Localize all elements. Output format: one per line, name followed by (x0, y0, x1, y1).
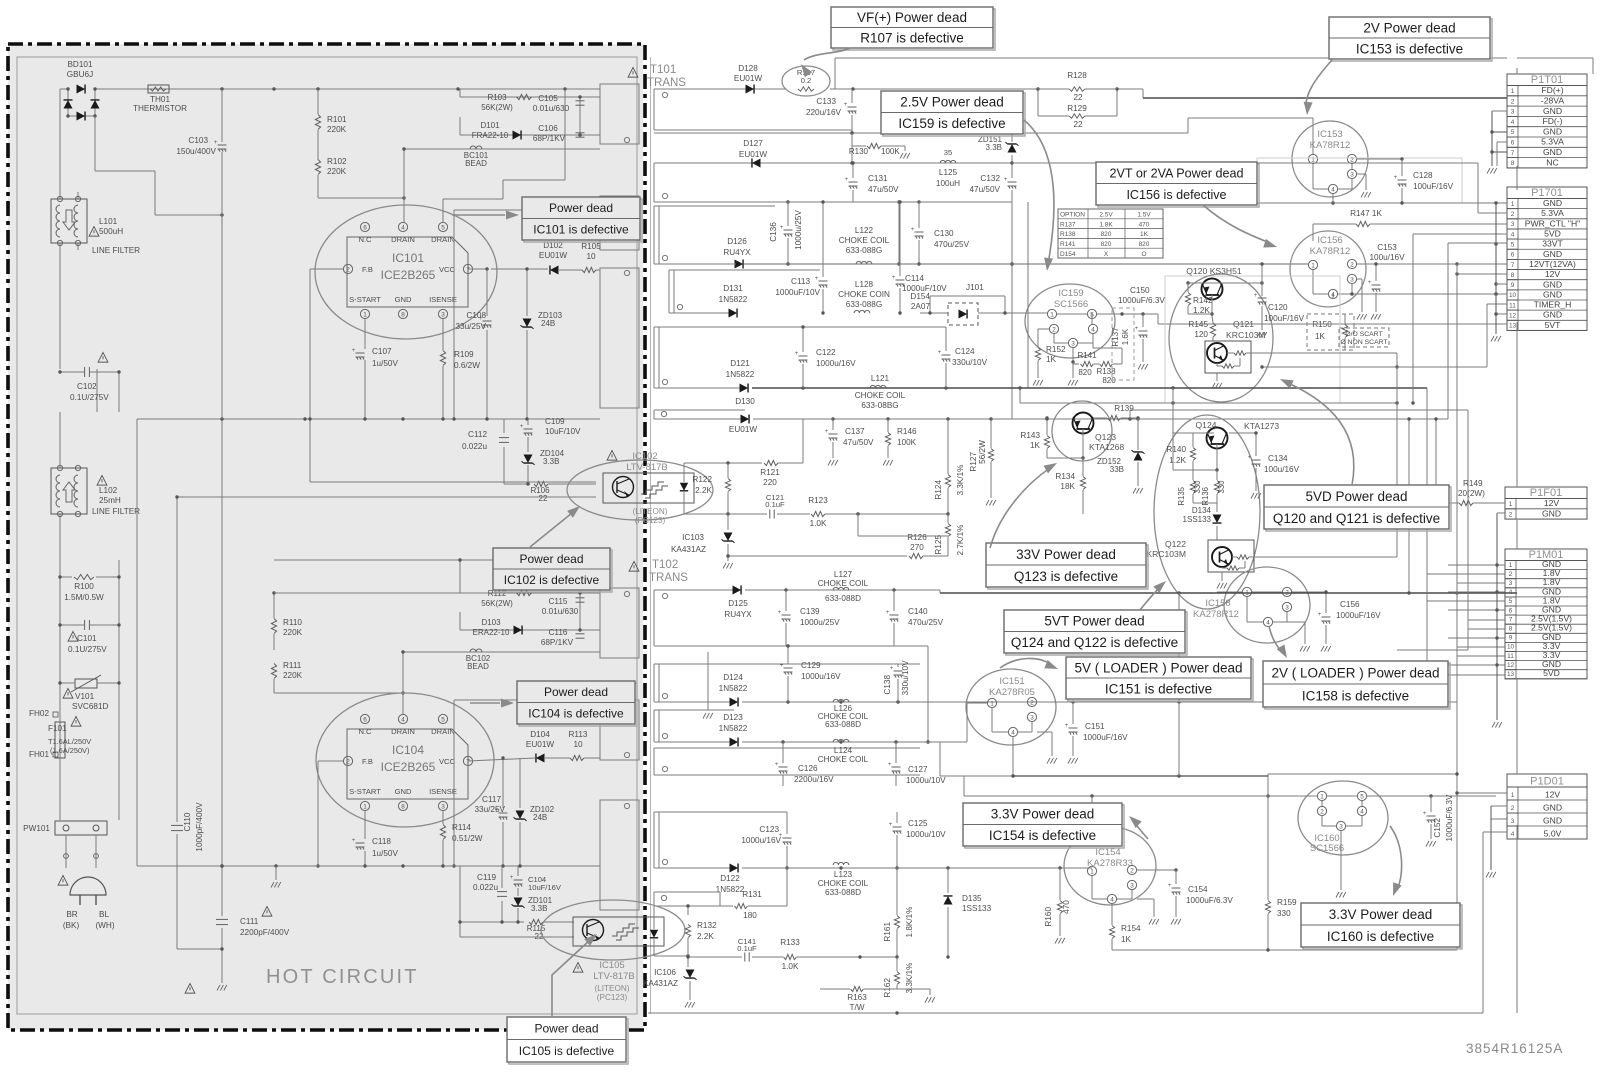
svg-text:1000u/10V: 1000u/10V (906, 776, 946, 785)
T102 feedback winding (654, 891, 688, 893)
wire bridge negative loop (94, 116, 96, 171)
svg-text:330u/10V: 330u/10V (952, 358, 988, 367)
resistor R121 (728, 462, 762, 464)
svg-text:THERMISTOR: THERMISTOR (133, 104, 187, 113)
capacitor C150 (1142, 314, 1144, 327)
wire IC151 pin4 down (1012, 737, 1014, 776)
svg-text:CHOKE COIL: CHOKE COIL (818, 879, 869, 888)
svg-text:Q123 is defective: Q123 is defective (1014, 569, 1118, 584)
capacitor C118 (364, 811, 366, 839)
svg-text:0.1uF: 0.1uF (737, 944, 757, 953)
svg-text:1: 1 (1311, 156, 1315, 163)
line filter L101 (51, 199, 87, 243)
svg-text:V101: V101 (75, 692, 95, 701)
svg-text:O: O (1141, 251, 1146, 258)
wire IC102 left leads (310, 481, 596, 483)
svg-text:+: + (795, 351, 799, 357)
resistor R101 (315, 115, 320, 130)
svg-text:R160: R160 (1044, 907, 1053, 927)
capacitor C130 (918, 202, 920, 228)
ground IC103 (727, 556, 729, 561)
regulator IC159 (1025, 284, 1115, 358)
svg-text:3.3B: 3.3B (986, 143, 1002, 152)
svg-text:2.5V: 2.5V (1099, 212, 1113, 219)
wire bus x1468 (1467, 410, 1469, 650)
callout 3.3V power dead IC154 (965, 805, 1124, 848)
wire IC104 drain (403, 651, 470, 653)
svg-text:R139: R139 (1114, 404, 1134, 413)
svg-text:KA431AZ: KA431AZ (643, 979, 678, 988)
resistor R125 (947, 514, 949, 523)
svg-text:633-088D: 633-088D (825, 720, 861, 729)
svg-text:2: 2 (1511, 211, 1515, 218)
svg-text:BL: BL (99, 910, 109, 919)
svg-text:4: 4 (1110, 896, 1114, 903)
svg-text:D123: D123 (723, 713, 743, 722)
callout 5V loader power dead (1068, 659, 1253, 701)
diode D104 (468, 758, 535, 761)
wire gnd bus P1701 (1495, 203, 1497, 334)
svg-text:+: + (890, 666, 894, 672)
svg-text:L101: L101 (99, 217, 118, 226)
svg-text:PWR_CTL "H": PWR_CTL "H" (1525, 218, 1580, 228)
svg-text:ERA22-10: ERA22-10 (473, 628, 510, 637)
svg-text:+: + (1248, 455, 1252, 461)
resistor R124 (947, 419, 949, 474)
svg-text:R100: R100 (74, 582, 94, 591)
capacitor C139 (785, 590, 787, 611)
svg-text:1000uF/16V: 1000uF/16V (1083, 733, 1128, 742)
resistor R154 (1111, 904, 1113, 925)
svg-text:5: 5 (1511, 241, 1515, 248)
diode D130 (741, 415, 750, 424)
svg-text:C102: C102 (77, 382, 97, 391)
svg-text:1000uF/6.3V: 1000uF/6.3V (1118, 296, 1165, 305)
svg-text:D124: D124 (723, 673, 743, 682)
resistor R114 (442, 811, 444, 824)
svg-text:(PC123): (PC123) (635, 516, 666, 525)
svg-text:2: 2 (1320, 808, 1324, 815)
svg-text:TRANS: TRANS (649, 572, 688, 584)
svg-text:2.7K/1%: 2.7K/1% (956, 525, 965, 556)
transistor Q123 (1073, 413, 1094, 434)
svg-text:FH02: FH02 (29, 709, 49, 718)
svg-text:6: 6 (1511, 252, 1515, 259)
svg-text:S-START: S-START (349, 787, 381, 796)
wire IC160 rail (1268, 795, 1317, 797)
svg-text:C111: C111 (240, 917, 259, 926)
svg-text:633-08BG: 633-08BG (861, 401, 898, 410)
svg-text:C134: C134 (1268, 454, 1288, 463)
svg-text:500uH: 500uH (99, 227, 123, 236)
wire IC159 pin3 gnd (1072, 348, 1074, 362)
highlight ellipse Q120 Q121 (1169, 274, 1273, 402)
svg-text:IC158: IC158 (1205, 598, 1230, 609)
diode D123 (730, 738, 739, 747)
svg-text:PW101: PW101 (23, 824, 50, 833)
svg-text:C126: C126 (798, 764, 818, 773)
svg-text:+: + (352, 348, 356, 354)
wire 12V from loop (1457, 273, 1507, 275)
wire drain5 path (442, 199, 444, 222)
svg-text:D101: D101 (480, 121, 500, 130)
transistor Q124 (1207, 428, 1228, 449)
zener ZD152 (1137, 418, 1139, 450)
T101 secondary winding S1 (654, 88, 785, 90)
svg-text:+: + (892, 275, 896, 281)
svg-text:47u/50V: 47u/50V (843, 438, 874, 447)
capacitor C125 (896, 812, 898, 823)
svg-text:C132: C132 (980, 174, 1000, 183)
svg-text:R142: R142 (1193, 296, 1213, 305)
svg-text:25mH: 25mH (99, 496, 121, 505)
svg-text:5V ( LOADER ) Power dead: 5V ( LOADER ) Power dead (1074, 660, 1242, 675)
svg-text:9: 9 (1511, 282, 1515, 289)
svg-text:22: 22 (539, 494, 548, 503)
svg-text:GND: GND (1542, 509, 1561, 519)
svg-text:(1.6A/250V): (1.6A/250V) (50, 746, 89, 755)
svg-text:1000u/16V: 1000u/16V (801, 672, 841, 681)
capacitor C116 (576, 633, 585, 635)
svg-text:6: 6 (363, 224, 367, 231)
svg-text:3: 3 (1339, 823, 1343, 830)
svg-text:R141: R141 (1060, 241, 1076, 248)
callout power dead IC101 (524, 199, 642, 242)
svg-text:1000u/10V: 1000u/10V (906, 830, 946, 839)
svg-text:GND: GND (1543, 249, 1562, 259)
svg-text:1K: 1K (1121, 935, 1132, 944)
svg-text:D125: D125 (728, 599, 748, 608)
svg-text:FH01: FH01 (29, 750, 49, 759)
svg-text:C103: C103 (188, 136, 208, 145)
resistor R111 (271, 664, 276, 679)
wire 5VT to P1701 (1456, 323, 1458, 325)
svg-text:1000uF/16V: 1000uF/16V (1336, 611, 1381, 620)
svg-text:R152: R152 (1046, 345, 1066, 354)
svg-text:IC158 is defective: IC158 is defective (1302, 688, 1409, 703)
diode D128 (746, 85, 755, 94)
svg-text:C151: C151 (1085, 722, 1105, 731)
arrow to 3.3V IC154 callout (1134, 822, 1148, 839)
svg-text:C156: C156 (1340, 600, 1360, 609)
T101 secondary winding S6 (654, 409, 745, 411)
svg-text:5.0V: 5.0V (1544, 828, 1562, 838)
arrow to IC160 callout (1390, 826, 1402, 890)
IC104 pin 2 (343, 756, 352, 765)
diode D135 (947, 868, 949, 893)
wire IC158 rail (1217, 591, 1242, 593)
svg-text:X: X (1104, 251, 1109, 258)
svg-text:2V ( LOADER ) Power dead: 2V ( LOADER ) Power dead (1271, 665, 1439, 680)
svg-text:+: + (888, 762, 892, 768)
IC101 pin 4 (398, 222, 407, 231)
choke L123 (833, 862, 849, 865)
svg-text:8: 8 (1509, 626, 1513, 633)
capacitor C153 (1375, 264, 1377, 281)
T102 secondary winding S1 (654, 589, 737, 591)
svg-text:C109: C109 (545, 417, 565, 426)
T102 secondary winding S3 (654, 709, 734, 711)
IC101 pin 8 (398, 309, 407, 318)
svg-text:R146: R146 (897, 427, 917, 436)
capacitor C140 (893, 590, 895, 611)
svg-text:C127: C127 (908, 765, 928, 774)
svg-text:+: + (1423, 811, 1427, 817)
svg-text:C105: C105 (538, 94, 558, 103)
svg-text:330: 330 (1277, 909, 1291, 918)
wire IC153 pin1 input (1312, 118, 1314, 154)
svg-text:C115: C115 (549, 597, 568, 606)
svg-text:Q123: Q123 (1095, 432, 1116, 442)
svg-text:Q124 and Q122 is defective: Q124 and Q122 is defective (1011, 635, 1178, 650)
svg-text:KA278R05: KA278R05 (989, 687, 1035, 698)
diode D122 (730, 864, 739, 873)
svg-text:0.01u/630: 0.01u/630 (533, 104, 570, 113)
svg-text:C117: C117 (482, 795, 501, 804)
svg-text:2: 2 (1509, 511, 1513, 518)
capacitor C111 (221, 419, 223, 916)
wire 2V rail (654, 387, 736, 389)
svg-text:C130: C130 (934, 229, 954, 238)
svg-text:L122: L122 (855, 226, 874, 235)
svg-text:IC102 is defective: IC102 is defective (504, 573, 600, 587)
capacitor C106 (576, 132, 585, 134)
wire primary aux T102 (453, 700, 455, 866)
svg-text:2V Power dead: 2V Power dead (1363, 20, 1455, 35)
svg-text:L124: L124 (834, 746, 853, 755)
arrow to IC153 (1306, 60, 1332, 106)
svg-text:633-088G: 633-088G (846, 300, 882, 309)
resistor R143 (1046, 418, 1048, 435)
wire T102 s1 top (745, 589, 940, 591)
T102 secondary winding S4 (654, 747, 920, 749)
resistor R123 (811, 511, 825, 516)
wire bus x1427 (1426, 388, 1428, 702)
wire 12VT rail (654, 263, 736, 265)
svg-text:D126: D126 (727, 237, 747, 246)
svg-text:330: 330 (1217, 480, 1226, 494)
svg-text:2: 2 (346, 758, 350, 765)
svg-text:1: 1 (363, 803, 367, 810)
capacitor C132 (1011, 163, 1013, 178)
IC101 pin 5 (438, 222, 447, 231)
svg-text:1.8K: 1.8K (1099, 221, 1113, 228)
svg-text:1: 1 (1311, 262, 1315, 269)
wire 5VT long rail (940, 592, 1517, 594)
svg-text:RU4YX: RU4YX (723, 248, 751, 257)
svg-text:56K(2W): 56K(2W) (481, 103, 513, 112)
wire AC input verticals (59, 89, 61, 199)
wire P1D01 stubs (1457, 792, 1507, 794)
choke L122 (856, 261, 872, 264)
svg-text:C120: C120 (1268, 303, 1288, 312)
wire top right frame (1592, 58, 1594, 74)
svg-text:(WH): (WH) (95, 921, 114, 930)
svg-text:F101: F101 (48, 724, 67, 733)
svg-text:10uF/16V: 10uF/16V (528, 883, 562, 892)
zener ZD104 (524, 455, 533, 464)
callout 3.3V power dead IC160 (1303, 905, 1462, 949)
svg-text:L125: L125 (939, 168, 958, 177)
svg-text:S-START: S-START (349, 295, 381, 304)
svg-text:IC101: IC101 (392, 251, 424, 265)
wire gnd bus P1M01 (1496, 513, 1498, 720)
svg-text:C119: C119 (477, 873, 496, 882)
svg-text:4: 4 (1331, 186, 1335, 193)
svg-text:10: 10 (1507, 644, 1515, 651)
capacitor C104 (517, 866, 519, 876)
resistor R132 (687, 906, 689, 915)
wire 2.5V to IC151 (920, 741, 940, 743)
svg-text:0.1U/275V: 0.1U/275V (70, 393, 109, 402)
svg-text:Power dead: Power dead (544, 685, 608, 699)
svg-text:D154: D154 (1060, 251, 1076, 258)
ground IC153 pin3 (1357, 173, 1366, 175)
svg-text:C116: C116 (549, 628, 568, 637)
diode D124 (730, 698, 739, 707)
svg-text:1K: 1K (1046, 355, 1057, 364)
svg-text:L128: L128 (855, 280, 874, 289)
svg-text:R135: R135 (1177, 486, 1186, 505)
shunt reg IC103 (727, 514, 729, 530)
svg-text:GND: GND (1543, 147, 1562, 157)
capacitor C138 (897, 664, 899, 667)
svg-text:2: 2 (1052, 326, 1056, 333)
svg-text:12V: 12V (1545, 789, 1561, 799)
svg-text:L121: L121 (871, 374, 890, 383)
svg-text:IC104 is defective: IC104 is defective (528, 707, 624, 721)
T101 secondary winding S5 (654, 326, 803, 328)
svg-text:5.3VA: 5.3VA (1541, 208, 1564, 218)
wire long vertical x1028 (1027, 202, 1029, 388)
svg-text:150u/400V: 150u/400V (176, 147, 216, 156)
connector P1F01 (1505, 487, 1587, 519)
svg-text:R154: R154 (1121, 924, 1141, 933)
svg-text:IC104: IC104 (392, 743, 424, 757)
svg-text:633-088G: 633-088G (846, 246, 882, 255)
svg-text:R161: R161 (883, 922, 892, 942)
resistor R131 (688, 891, 720, 893)
connector P1701 (1507, 187, 1587, 330)
svg-text:C110: C110 (183, 812, 192, 831)
svg-text:2: 2 (346, 266, 350, 273)
diode D134 (1216, 503, 1218, 512)
IC104 pin 6 (360, 714, 369, 723)
resistor R113 (570, 755, 584, 760)
svg-text:DRAIN: DRAIN (431, 727, 455, 736)
svg-text:R122: R122 (692, 475, 712, 484)
capacitor C137 (832, 419, 834, 430)
svg-text:5.3VA: 5.3VA (1541, 137, 1564, 147)
svg-text:4: 4 (1511, 119, 1515, 126)
resistor R163 (820, 988, 850, 990)
svg-text:C136: C136 (769, 222, 778, 242)
IC104 body (347, 729, 468, 799)
svg-text:2.2K: 2.2K (697, 932, 714, 941)
svg-text:N.C: N.C (358, 727, 372, 736)
svg-text:1: 1 (1509, 562, 1513, 569)
IC104 pin 1 (360, 801, 369, 810)
svg-text:3.3K/1%: 3.3K/1% (956, 465, 965, 496)
svg-text:180: 180 (743, 911, 757, 920)
svg-text:GND: GND (1543, 106, 1562, 116)
svg-text:R105: R105 (581, 242, 601, 251)
wire IC153 pin4 gnd (1332, 194, 1334, 203)
svg-text:KTA1268: KTA1268 (1089, 442, 1124, 452)
resistor R134 (1082, 458, 1084, 476)
resistor R140 (1193, 432, 1214, 434)
arrow to IC105 callout (552, 940, 590, 1016)
svg-text:8: 8 (401, 311, 405, 318)
wire IC153 out (1357, 158, 1402, 160)
svg-text:C118: C118 (372, 837, 391, 846)
svg-text:T102: T102 (652, 559, 678, 571)
svg-text:C125: C125 (908, 819, 928, 828)
resistor R100 (74, 574, 94, 579)
svg-text:P1D01: P1D01 (1530, 775, 1564, 787)
arrow to Q120 Q121 (1288, 383, 1354, 485)
svg-text:820: 820 (1139, 241, 1150, 248)
diode D103 (514, 626, 523, 635)
wire drain to bead (404, 148, 470, 150)
resistor R127 (990, 419, 992, 448)
svg-text:R131: R131 (742, 890, 762, 899)
svg-text:4: 4 (1511, 831, 1515, 838)
svg-text:+: + (510, 875, 514, 881)
svg-text:+: + (214, 140, 218, 146)
svg-text:+: + (1168, 883, 1172, 889)
svg-text:7: 7 (1509, 616, 1513, 623)
svg-text:633-088D: 633-088D (825, 888, 861, 897)
capacitor C119 (501, 866, 503, 888)
svg-text:+: + (1368, 280, 1372, 286)
svg-text:R162: R162 (883, 978, 892, 998)
svg-text:C123: C123 (759, 825, 779, 834)
svg-text:13: 13 (1507, 671, 1515, 678)
svg-text:CHOKE COIL: CHOKE COIL (818, 579, 869, 588)
T101 aux winding (600, 196, 639, 250)
svg-text:KTA1273: KTA1273 (1244, 421, 1279, 431)
bead BC101 (470, 146, 482, 149)
capacitor C136 (787, 202, 789, 226)
arrow to 2V loader callout (1269, 626, 1283, 653)
regulator IC153 (1292, 121, 1368, 197)
svg-text:1.0K: 1.0K (782, 962, 799, 971)
svg-text:LTV-817B: LTV-817B (593, 971, 635, 982)
svg-text:Ø NON SCART: Ø NON SCART (1340, 339, 1387, 346)
diode D121 (740, 384, 749, 393)
svg-text:LINE FILTER: LINE FILTER (92, 507, 140, 516)
svg-text:18K: 18K (1060, 482, 1075, 491)
svg-text:12V: 12V (1544, 498, 1560, 508)
svg-text:10: 10 (1509, 292, 1517, 299)
svg-text:T1.6AL/250V: T1.6AL/250V (48, 737, 91, 746)
capacitor C117 (502, 758, 504, 808)
callout 2.5V power dead (883, 93, 1025, 136)
svg-text:4: 4 (1011, 729, 1015, 736)
optocoupler IC105 (541, 900, 685, 960)
diode D126 (735, 260, 744, 269)
svg-text:CHOKE COIL: CHOKE COIL (855, 391, 906, 400)
choke L127 (833, 587, 849, 590)
capacitor C109 (527, 419, 529, 425)
svg-text:470: 470 (1062, 900, 1071, 914)
ground IC158 (1304, 622, 1306, 644)
svg-text:BEAD: BEAD (465, 159, 487, 168)
op-ellipse IC101 (315, 205, 497, 339)
capacitor C129 (784, 667, 793, 669)
svg-text:D121: D121 (730, 359, 750, 368)
